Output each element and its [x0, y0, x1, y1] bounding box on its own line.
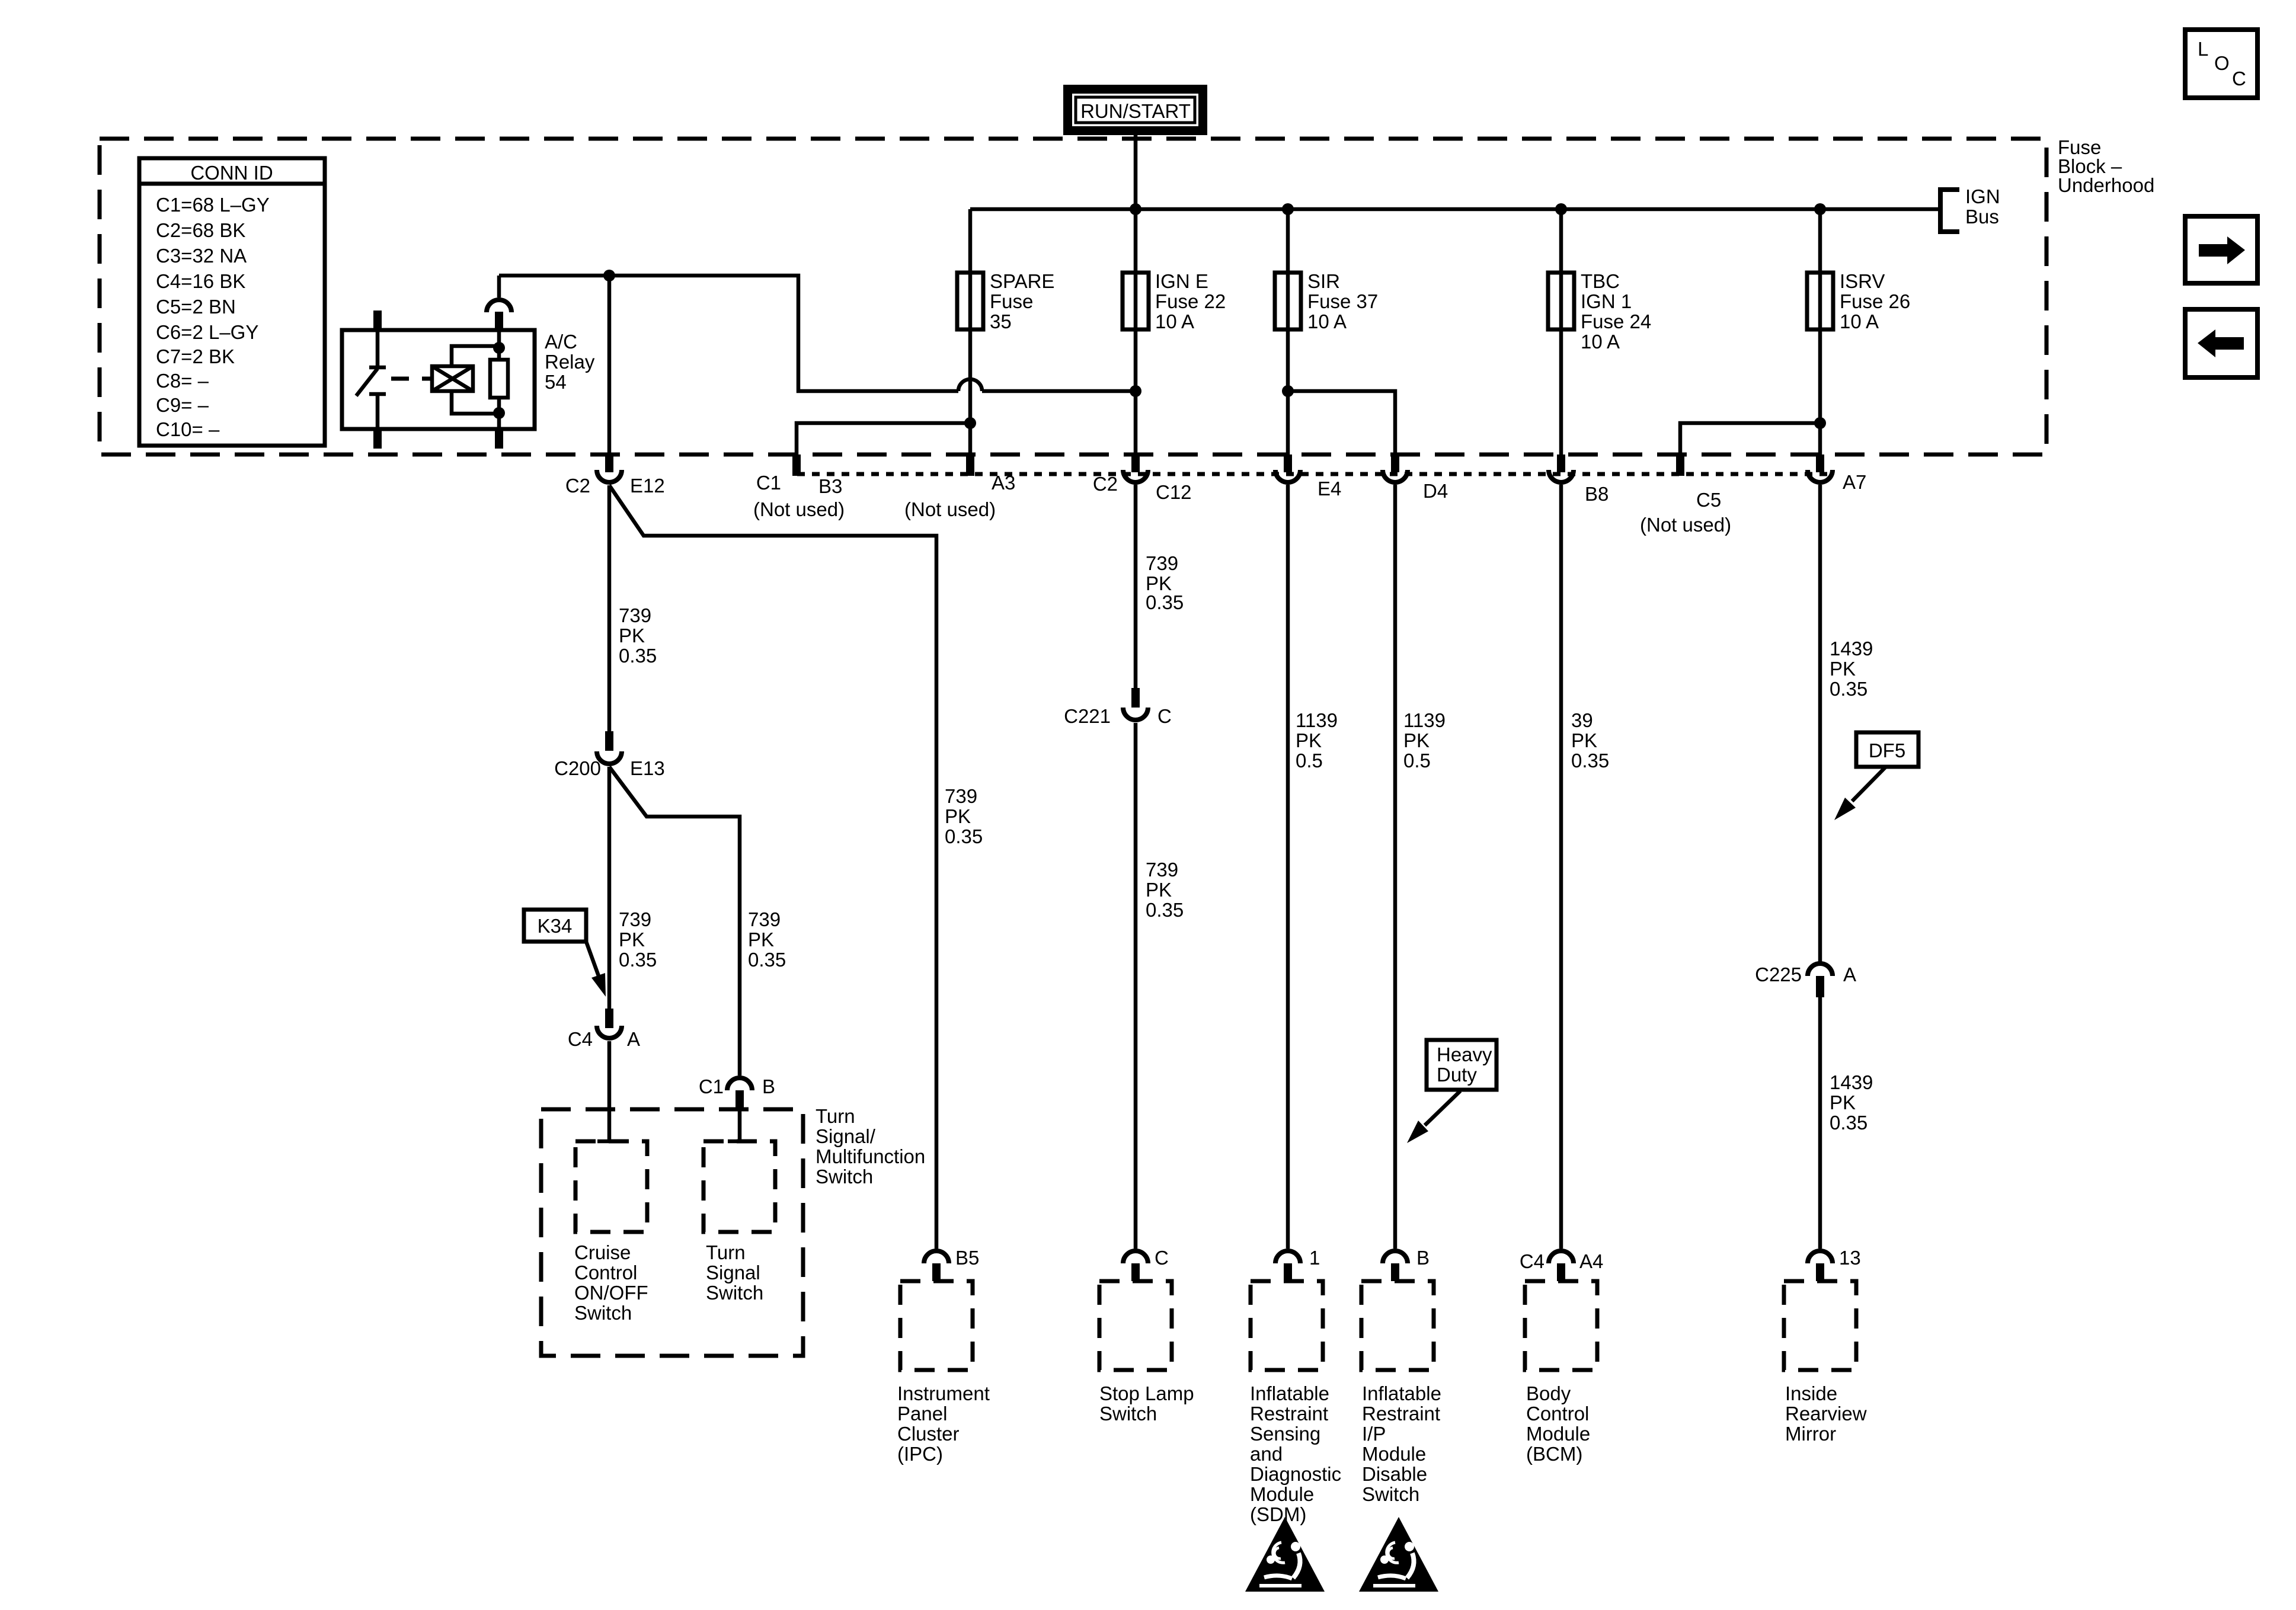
wire label 739 PK 0.35 (turn signal): [748, 908, 786, 971]
fuse IGN E Fuse 22 10A: [1123, 270, 1226, 332]
svg-text:L: L: [2198, 38, 2208, 60]
body control module box: [1525, 1281, 1597, 1465]
node junction relay feed on IGN E wire: [1130, 385, 1141, 397]
cruise control switch inner dashed box: [575, 1141, 647, 1232]
svg-text:(SDM): (SDM): [1250, 1503, 1306, 1525]
svg-text:Rearview: Rearview: [1785, 1403, 1867, 1425]
connector B (I/P disable): [1383, 1247, 1430, 1281]
connector C225/A: [1755, 964, 1856, 997]
svg-text:54: 54: [545, 371, 567, 393]
wire BCM column: [1559, 485, 1563, 1249]
wire label 1139 PK 0.5 (I/P): [1403, 709, 1446, 772]
svg-text:Bus: Bus: [1965, 206, 1999, 228]
svg-text:E12: E12: [630, 475, 665, 497]
svg-text:DF5: DF5: [1869, 740, 1905, 761]
svg-text:C1: C1: [756, 472, 781, 494]
svg-text:C10= –: C10= –: [156, 418, 220, 440]
svg-text:A/C: A/C: [545, 331, 577, 353]
svg-text:Switch: Switch: [574, 1302, 632, 1324]
svg-text:PK: PK: [1296, 729, 1322, 751]
connector B5 (IPC): [924, 1247, 979, 1281]
svg-text:PK: PK: [1146, 879, 1172, 901]
svg-text:C: C: [1157, 705, 1172, 727]
svg-text:Disable: Disable: [1362, 1463, 1427, 1485]
svg-text:C12: C12: [1156, 481, 1192, 503]
svg-text:Cruise: Cruise: [574, 1241, 631, 1263]
svg-text:Underhood: Underhood: [2058, 174, 2154, 196]
IGN bus line: [970, 207, 1939, 212]
svg-text:C4=16 BK: C4=16 BK: [156, 270, 245, 292]
connector C (stop lamp switch): [1123, 1247, 1169, 1281]
svg-text:Signal/: Signal/: [816, 1125, 876, 1147]
B3 branch wire: [797, 423, 970, 454]
wire IGN E fuse column: [1134, 209, 1138, 454]
svg-text:C221: C221: [1064, 705, 1111, 727]
turn signal / multifunction switch outer dashed box: [541, 1109, 803, 1356]
svg-text:739: 739: [748, 908, 781, 930]
svg-text:TBC: TBC: [1581, 270, 1620, 292]
connector C2/C12: [1093, 454, 1192, 503]
A/C relay 54: [342, 276, 595, 449]
svg-text:35: 35: [990, 311, 1012, 332]
svg-text:Switch: Switch: [816, 1166, 873, 1188]
wire C2/E12 to C200: [607, 485, 612, 731]
pin C5 stub (not used): [1676, 454, 1684, 476]
wire label 739 PK 0.35 (lower stop lamp): [1146, 859, 1184, 921]
wire SIR fuse column: [1286, 209, 1290, 454]
relay actuator dashed link: [391, 377, 432, 381]
svg-text:1139: 1139: [1403, 709, 1446, 731]
label Fuse Block - Underhood: [2058, 136, 2154, 196]
wire C221 to stop lamp switch: [1134, 723, 1138, 1249]
svg-text:Turn: Turn: [706, 1241, 746, 1263]
svg-text:B: B: [1416, 1247, 1430, 1269]
connector A7: [1808, 454, 1866, 493]
wire label 1439 PK 0.35 (lower mirror): [1830, 1071, 1873, 1134]
K34 callout box: [524, 910, 606, 997]
inside rearview mirror box: [1784, 1281, 1867, 1445]
wire hop over SPARE wire: [958, 379, 982, 391]
svg-text:C8= –: C8= –: [156, 370, 209, 392]
wire label 39 PK 0.35 (BCM): [1571, 709, 1609, 772]
svg-text:Instrument: Instrument: [897, 1382, 990, 1404]
relay box: [342, 330, 535, 429]
wire stop lamp column (below C2/C12): [1134, 485, 1138, 688]
svg-text:PK: PK: [748, 929, 774, 950]
svg-text:Fuse 24: Fuse 24: [1581, 311, 1651, 332]
svg-text:739: 739: [1146, 552, 1178, 574]
wire SDM column: [1286, 485, 1290, 1249]
wire label 739 PK 0.35 (cruise): [619, 908, 657, 971]
svg-text:Cluster: Cluster: [897, 1423, 960, 1445]
wire RUN/START to IGN bus: [1134, 135, 1138, 209]
svg-text:IGN 1: IGN 1: [1581, 290, 1632, 312]
svg-text:0.5: 0.5: [1296, 750, 1323, 772]
connector C221/C: [1064, 688, 1172, 727]
svg-text:13: 13: [1839, 1247, 1861, 1269]
svg-text:(BCM): (BCM): [1526, 1443, 1582, 1465]
svg-text:B5: B5: [955, 1247, 979, 1269]
relay switch pin bottom: [373, 429, 382, 449]
svg-text:0.35: 0.35: [619, 645, 657, 667]
wire label 739 PK 0.35 (IPC): [945, 785, 983, 847]
svg-text:Module: Module: [1362, 1443, 1426, 1465]
connector C4/A4 (BCM): [1520, 1250, 1604, 1281]
wire C2/E12 to IPC: [609, 485, 936, 1249]
svg-text:and: and: [1250, 1443, 1283, 1465]
svg-text:O: O: [2214, 52, 2230, 74]
svg-text:C2: C2: [1093, 473, 1118, 495]
svg-text:Body: Body: [1526, 1382, 1571, 1404]
node junction B3-SPARE: [964, 417, 976, 429]
svg-text:ON/OFF: ON/OFF: [574, 1282, 648, 1304]
svg-text:Sensing: Sensing: [1250, 1423, 1320, 1445]
turn signal switch inner dashed box: [703, 1141, 775, 1232]
pin B3 stub (not used): [792, 454, 801, 476]
node junction SIR-D4 branch: [1282, 385, 1294, 397]
connector D4: [1383, 454, 1448, 502]
svg-text:10 A: 10 A: [1307, 311, 1347, 332]
svg-text:10 A: 10 A: [1581, 331, 1620, 353]
svg-text:1439: 1439: [1830, 638, 1873, 660]
svg-text:(Not used): (Not used): [1640, 514, 1731, 536]
relay switch: [376, 330, 380, 367]
svg-text:B3: B3: [818, 475, 842, 497]
svg-text:IGN: IGN: [1965, 185, 2000, 207]
svg-text:1439: 1439: [1830, 1071, 1873, 1093]
connector 13 (mirror): [1808, 1247, 1861, 1281]
svg-text:C3=32 NA: C3=32 NA: [156, 245, 247, 267]
svg-text:A: A: [627, 1028, 640, 1050]
fuse ISRV Fuse 26 10A: [1807, 270, 1910, 332]
svg-text:PK: PK: [1571, 729, 1597, 751]
svg-text:Control: Control: [1526, 1403, 1589, 1425]
svg-text:Signal: Signal: [706, 1262, 760, 1283]
svg-text:D4: D4: [1423, 480, 1448, 502]
svg-text:(IPC): (IPC): [897, 1443, 943, 1465]
wire SPARE fuse column: [968, 209, 973, 454]
svg-text:10 A: 10 A: [1155, 311, 1194, 332]
pin A3 stub (not used): [966, 454, 974, 476]
svg-text:39: 39: [1571, 709, 1593, 731]
svg-text:SIR: SIR: [1307, 270, 1340, 292]
svg-text:Diagnostic: Diagnostic: [1250, 1463, 1341, 1485]
svg-text:A3: A3: [992, 472, 1015, 494]
SDM box: [1250, 1281, 1341, 1525]
svg-text:Mirror: Mirror: [1785, 1423, 1836, 1445]
svg-text:C7=2 BK: C7=2 BK: [156, 345, 235, 367]
svg-text:C2=68 BK: C2=68 BK: [156, 219, 245, 241]
Heavy Duty callout box: [1407, 1040, 1496, 1143]
svg-text:Switch: Switch: [1099, 1403, 1157, 1425]
svg-text:Control: Control: [574, 1262, 637, 1283]
connector row dotted line: [797, 472, 1831, 476]
wire branch to C5: [1680, 423, 1820, 454]
fuse SIR Fuse 37 10A: [1275, 270, 1378, 332]
svg-text:1139: 1139: [1296, 709, 1338, 731]
svg-text:Module: Module: [1250, 1483, 1314, 1505]
wire C4/A into switch: [607, 1041, 612, 1141]
svg-text:Fuse: Fuse: [990, 290, 1033, 312]
svg-text:1: 1: [1309, 1247, 1320, 1269]
svg-text:Restraint: Restraint: [1250, 1403, 1328, 1425]
relay coil: [432, 366, 473, 391]
SRS warning triangle (SDM): [1245, 1517, 1325, 1592]
connector E4: [1275, 454, 1341, 500]
svg-text:0.35: 0.35: [1830, 1112, 1868, 1134]
svg-text:739: 739: [945, 785, 977, 807]
node junction ISRV-C5 branch: [1814, 417, 1826, 429]
svg-text:10 A: 10 A: [1840, 311, 1879, 332]
svg-text:ISRV: ISRV: [1840, 270, 1885, 292]
wire ISRV fuse column: [1818, 209, 1822, 454]
svg-text:(Not used): (Not used): [904, 498, 996, 520]
I/P module disable switch box: [1361, 1281, 1441, 1505]
wire TBC fuse column: [1559, 209, 1563, 454]
svg-text:C1=68 L–GY: C1=68 L–GY: [156, 194, 270, 216]
svg-text:RUN/START: RUN/START: [1080, 100, 1191, 122]
svg-text:Switch: Switch: [706, 1282, 763, 1304]
svg-text:PK: PK: [1830, 658, 1856, 680]
svg-text:Module: Module: [1526, 1423, 1590, 1445]
svg-text:C5: C5: [1696, 489, 1721, 511]
svg-text:0.35: 0.35: [748, 949, 786, 971]
svg-text:Fuse 37: Fuse 37: [1307, 290, 1378, 312]
connector 1 (SDM): [1275, 1247, 1320, 1281]
svg-text:K34: K34: [538, 915, 573, 937]
wire label 739 PK 0.35 (upper stop lamp): [1146, 552, 1184, 613]
node junction C2/E12 drop: [603, 270, 615, 281]
CONN ID table: [139, 158, 325, 446]
svg-text:PK: PK: [619, 625, 645, 646]
A/C relay feed wire: [499, 276, 958, 391]
svg-text:Restraint: Restraint: [1362, 1403, 1440, 1425]
svg-text:PK: PK: [619, 929, 645, 950]
svg-text:B: B: [762, 1076, 775, 1097]
svg-text:PK: PK: [1403, 729, 1430, 751]
svg-text:0.35: 0.35: [1571, 750, 1609, 772]
relay switch pin top: [373, 311, 382, 330]
relay coil pin bottom: [495, 429, 503, 449]
wire label 1439 PK 0.35 (upper mirror): [1830, 638, 1873, 700]
svg-text:Fuse 26: Fuse 26: [1840, 290, 1910, 312]
wire branch to D4: [1288, 391, 1395, 454]
svg-text:0.35: 0.35: [1830, 678, 1868, 700]
svg-text:I/P: I/P: [1362, 1423, 1386, 1445]
wire C2/E12 drop: [607, 276, 612, 454]
fuse block underhood dashed outline: [100, 139, 2046, 454]
wire mirror column upper: [1818, 485, 1822, 962]
wire label 739 PK 0.35 (E12-E13): [619, 604, 657, 667]
relay pin cup: [497, 276, 501, 297]
connector B8: [1549, 454, 1609, 505]
instrument panel cluster box: [897, 1281, 990, 1465]
svg-text:E13: E13: [630, 757, 665, 779]
LOC box top right: [2185, 30, 2257, 98]
svg-text:CONN ID: CONN ID: [190, 162, 273, 184]
node junction TBC-bus: [1555, 203, 1567, 215]
svg-text:Inflatable: Inflatable: [1362, 1382, 1441, 1404]
svg-text:C200: C200: [554, 757, 601, 779]
relay resistor: [490, 360, 508, 398]
svg-text:Duty: Duty: [1437, 1064, 1477, 1086]
right arrow box: [2185, 216, 2257, 283]
svg-text:Inside: Inside: [1785, 1382, 1837, 1404]
svg-text:C4: C4: [1520, 1250, 1544, 1272]
connector C4/A: [568, 1009, 640, 1050]
fuse TBC IGN 1 Fuse 24 10A: [1548, 270, 1651, 353]
svg-text:C6=2 L–GY: C6=2 L–GY: [156, 321, 258, 343]
node junction RUN/START-bus: [1130, 203, 1141, 215]
svg-text:IGN E: IGN E: [1155, 270, 1208, 292]
IGN Bus terminal bracket: [1940, 185, 2000, 232]
svg-text:C9= –: C9= –: [156, 394, 209, 416]
node junction ISRV-bus: [1814, 203, 1826, 215]
wire C1/B into switch: [738, 1110, 742, 1141]
fuse SPARE Fuse 35: [957, 270, 1054, 332]
svg-text:PK: PK: [1830, 1092, 1856, 1113]
wire mirror column lower: [1818, 997, 1822, 1249]
svg-text:C2: C2: [565, 475, 590, 497]
stop lamp switch box: [1099, 1281, 1194, 1425]
svg-text:Switch: Switch: [1362, 1483, 1419, 1505]
svg-text:Multifunction: Multifunction: [816, 1145, 925, 1167]
connector C200/E13: [554, 731, 665, 779]
svg-text:B8: B8: [1585, 483, 1609, 505]
svg-text:0.35: 0.35: [945, 825, 983, 847]
SRS warning triangle (I/P): [1359, 1517, 1438, 1592]
connector C1/B: [699, 1076, 775, 1110]
svg-text:0.35: 0.35: [1146, 899, 1184, 921]
svg-text:Stop Lamp: Stop Lamp: [1099, 1382, 1194, 1404]
svg-text:739: 739: [1146, 859, 1178, 881]
svg-text:C: C: [1155, 1247, 1169, 1269]
svg-text:A: A: [1843, 964, 1856, 985]
svg-text:C: C: [2232, 68, 2246, 89]
svg-text:739: 739: [619, 604, 651, 626]
DF5 callout box: [1834, 732, 1918, 820]
svg-text:Heavy: Heavy: [1437, 1044, 1492, 1065]
connector C2/E12: [565, 454, 665, 497]
svg-text:Turn: Turn: [816, 1105, 855, 1127]
wire label 1139 PK 0.5 (SDM): [1296, 709, 1338, 772]
node junction SIR-bus: [1282, 203, 1294, 215]
svg-text:A4: A4: [1579, 1250, 1603, 1272]
wire C200 to turn signal switch: [609, 767, 740, 1076]
svg-text:0.5: 0.5: [1403, 750, 1431, 772]
svg-text:Panel: Panel: [897, 1403, 947, 1425]
svg-text:C225: C225: [1755, 964, 1802, 985]
svg-text:Fuse 22: Fuse 22: [1155, 290, 1226, 312]
svg-text:PK: PK: [945, 805, 971, 827]
svg-text:C1: C1: [699, 1076, 724, 1097]
svg-text:C4: C4: [568, 1028, 593, 1050]
svg-text:0.35: 0.35: [619, 949, 657, 971]
svg-text:Inflatable: Inflatable: [1250, 1382, 1329, 1404]
wire I/P disable column: [1393, 485, 1398, 1249]
svg-text:(Not used): (Not used): [753, 498, 845, 520]
svg-text:SPARE: SPARE: [990, 270, 1054, 292]
svg-text:Relay: Relay: [545, 351, 595, 373]
svg-text:739: 739: [619, 908, 651, 930]
svg-text:E4: E4: [1318, 478, 1341, 500]
RUN/START box: [1063, 85, 1207, 135]
left arrow box: [2185, 309, 2257, 377]
wire C200 to cruise switch: [607, 767, 612, 1009]
svg-text:0.35: 0.35: [1146, 591, 1184, 613]
svg-text:A7: A7: [1843, 471, 1866, 493]
svg-text:C5=2 BN: C5=2 BN: [156, 296, 236, 318]
